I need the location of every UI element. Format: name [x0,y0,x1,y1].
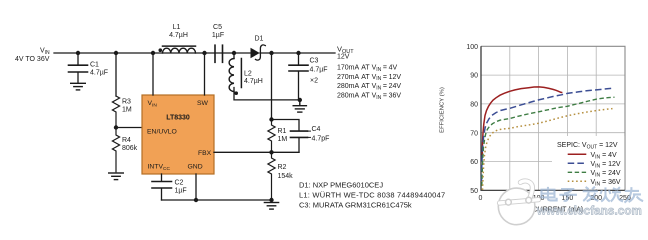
legend sample 36V [568,180,587,182]
capacitor C2 [152,174,172,200]
value label LT8330 [166,115,190,122]
wire SW pin drop [204,53,206,95]
legend sample 4V [568,153,587,155]
op-amp U1 LT8330 [142,95,214,174]
char shao [600,187,622,201]
svg-text:50: 50 [470,188,478,195]
ground below C1 [71,83,86,90]
axis y labels [466,44,478,195]
svg-text:1M: 1M [278,136,288,143]
capacitor C3 [289,53,308,100]
svg-text:C5: C5 [213,24,222,31]
svg-text:C3: MURATA GRM31CR61C475k: C3: MURATA GRM31CR61C475k [299,201,412,210]
watermark chinese text [541,187,643,203]
curve VIN=36V olive dotted [483,109,613,190]
svg-text:12V: 12V [337,54,350,61]
value label C1 [90,61,108,76]
resistor R4 [112,128,119,172]
watermark logo [498,181,538,225]
svg-text:4.7µF: 4.7µF [310,67,328,74]
resistor R3 [112,96,119,126]
curve VIN=4V red [482,87,562,158]
char dian [541,187,556,201]
svg-text:R1: R1 [278,128,287,135]
value label R3 [122,98,132,113]
svg-text:SW: SW [197,100,209,107]
curve VIN=12V blue [482,88,612,181]
wire VIN pin drop [152,53,154,95]
resistor R2 [268,152,275,200]
pin INTVCC [148,164,171,173]
svg-text:60: 60 [470,159,478,166]
legend background [552,136,625,189]
node junction FBX [269,150,273,154]
svg-text:70: 70 [470,130,478,137]
pin SW [197,100,209,107]
svg-text:C4: C4 [312,126,321,133]
svg-text:FBX: FBX [198,150,212,157]
svg-text:C2: C2 [175,180,184,187]
svg-text:D1: D1 [255,36,264,43]
svg-text:LT8330: LT8330 [166,115,190,122]
ground below R4 [109,173,124,180]
svg-text:D1: NXP PMEG6010CEJ: D1: NXP PMEG6010CEJ [299,181,383,190]
pin VIN [148,100,158,109]
svg-text:80: 80 [470,102,478,109]
svg-text:4V TO 36V: 4V TO 36V [15,56,50,63]
legend labels [591,152,621,187]
chart frame [481,46,625,190]
svg-text:4.7µH: 4.7µH [244,78,263,85]
wire ground bus [162,199,272,201]
pin FBX [198,150,212,157]
node junction EN [114,125,118,129]
value label C4 [312,126,330,142]
svg-text:4.7pF: 4.7pF [312,136,330,143]
svg-text:100: 100 [466,44,478,51]
value label C2 [175,180,187,195]
svg-text:GND: GND [188,164,203,171]
svg-text:C1: C1 [90,61,99,68]
svg-text:R2: R2 [278,164,287,171]
svg-text:R4: R4 [122,137,131,144]
node junction L1/C5/SW [202,51,206,55]
wire C4 branch bottom [298,138,300,152]
svg-text:90: 90 [470,73,478,80]
svg-text:L2: L2 [244,70,252,77]
node junction D1 out [269,51,273,55]
wire C4 branch top [272,120,300,131]
node junction C3 [296,51,300,55]
value label D1 [255,36,264,43]
svg-text:806k: 806k [122,145,138,152]
axis x labels [479,195,631,202]
svg-text:0: 0 [479,195,483,202]
svg-text:154k: 154k [278,173,294,180]
node junction C4 top [269,117,273,121]
char you [624,187,643,203]
value label L1 [169,24,188,39]
svg-text:4.7µF: 4.7µF [90,70,108,77]
node junction R2 ground [269,198,273,202]
curve VIN=24V green [482,97,615,186]
value label R4 [122,137,138,152]
svg-text:4.7µH: 4.7µH [169,32,188,39]
inductor L1 [159,46,196,53]
node junction C1 [76,51,80,55]
node junction C5/L2 [232,51,236,55]
value label L2 [244,70,263,85]
value label C3 [310,57,328,84]
legend sample 12V [568,162,587,164]
wire L2 bottom to C3 ground [234,88,300,100]
svg-text:L1: L1 [173,24,181,31]
svg-text:EFFICIENCY (%): EFFICIENCY (%) [440,87,446,133]
node junction GND bus [194,198,198,202]
resistor R1 [268,120,275,153]
node VIN label [15,47,50,63]
wire top rail D1 cathode to VOUT [260,52,335,54]
wire top rail VIN to D1 anode [54,52,251,54]
svg-text:C3: C3 [310,57,319,64]
pin EN/UVLO [147,129,177,136]
char zi [559,189,577,201]
legend sample 24V [568,171,587,173]
svg-text:L1: WÜRTH WE-TDC 8038 74489440: L1: WÜRTH WE-TDC 8038 74489440047 [299,191,445,200]
wire R3 drop [115,53,117,96]
value label R1 [278,128,288,143]
svg-text:www.elecfans.com: www.elecfans.com [536,205,642,218]
svg-text:1M: 1M [122,107,132,114]
wire FBX [214,151,299,153]
wire EN/UVLO [116,127,142,129]
node junction L2/C3 ground [298,98,302,102]
node VOUT label and specs [337,45,401,102]
wire GND pin drop [195,174,197,200]
node junction VIN pin [151,51,155,55]
char fa [583,187,599,202]
value label R2 [278,164,294,180]
svg-text:1µF: 1µF [212,32,224,39]
node junction R3 [114,51,118,55]
value label C5 [212,24,224,39]
capacitor C1 [69,53,88,82]
diode D1 [251,45,265,60]
ground below R2 [264,203,278,210]
wire D1 node to R1 [271,53,273,120]
svg-text:1µF: 1µF [175,187,187,194]
note parts list [299,181,445,210]
capacitor C5 [215,45,223,62]
pin GND [188,164,203,171]
chart gridlines [481,46,625,190]
svg-text:R3: R3 [122,98,131,105]
svg-text:EN/UVLO: EN/UVLO [147,129,177,136]
capacitor C4 [291,131,311,137]
svg-text:×2: ×2 [310,77,318,84]
ground below C3 [293,100,306,112]
inductor L2 [229,53,241,95]
